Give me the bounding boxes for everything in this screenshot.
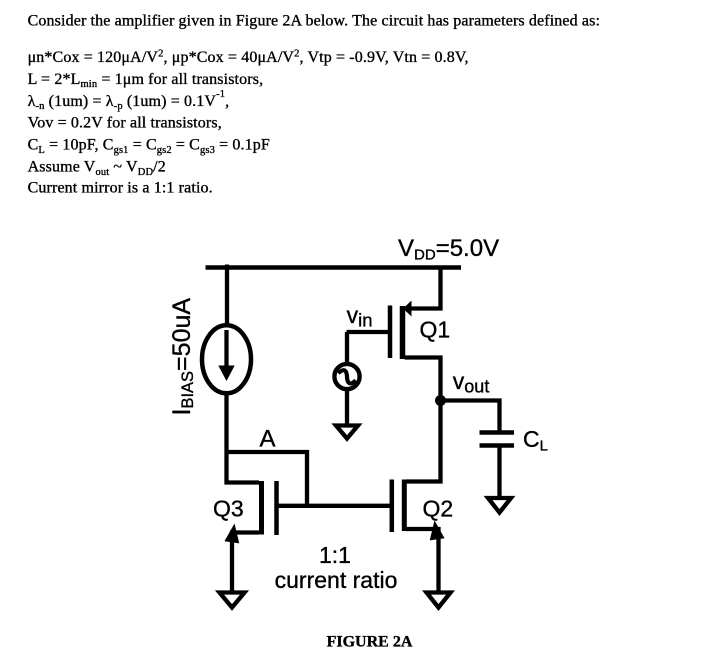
svg-text:Q3: Q3 bbox=[213, 496, 244, 522]
svg-text:A: A bbox=[260, 426, 276, 453]
svg-text:VDD=5.0V: VDD=5.0V bbox=[398, 235, 499, 264]
svg-text:CL = 10pF, Cgs1 = Cgs2 = Cgs3: CL = 10pF, Cgs1 = Cgs2 = Cgs3 = 0.1pF bbox=[28, 137, 270, 156]
svg-text:μn*Cox = 120μA/V2, μp*Cox = 40: μn*Cox = 120μA/V2, μp*Cox = 40μA/V2, Vtp… bbox=[28, 48, 469, 66]
svg-text:Q2: Q2 bbox=[423, 496, 454, 522]
svg-text:current ratio: current ratio bbox=[275, 567, 398, 593]
svg-text:L = 2*Lmin = 1μm for all trans: L = 2*Lmin = 1μm for all transistors, bbox=[28, 71, 264, 90]
svg-text:1:1: 1:1 bbox=[319, 542, 351, 568]
svg-text:Consider the amplifier given i: Consider the amplifier given in Figure 2… bbox=[28, 13, 600, 30]
svg-text:λ-n (1um) = λ-p (1um) = 0.1V-1: λ-n (1um) = λ-p (1um) = 0.1V-1, bbox=[28, 89, 230, 112]
svg-text:Current mirror is a 1:1 ratio.: Current mirror is a 1:1 ratio. bbox=[28, 180, 213, 197]
svg-text:Q1: Q1 bbox=[420, 317, 451, 343]
svg-text:FIGURE 2A: FIGURE 2A bbox=[327, 634, 413, 651]
svg-text:Vov = 0.2V for all transistors: Vov = 0.2V for all transistors, bbox=[28, 115, 222, 132]
